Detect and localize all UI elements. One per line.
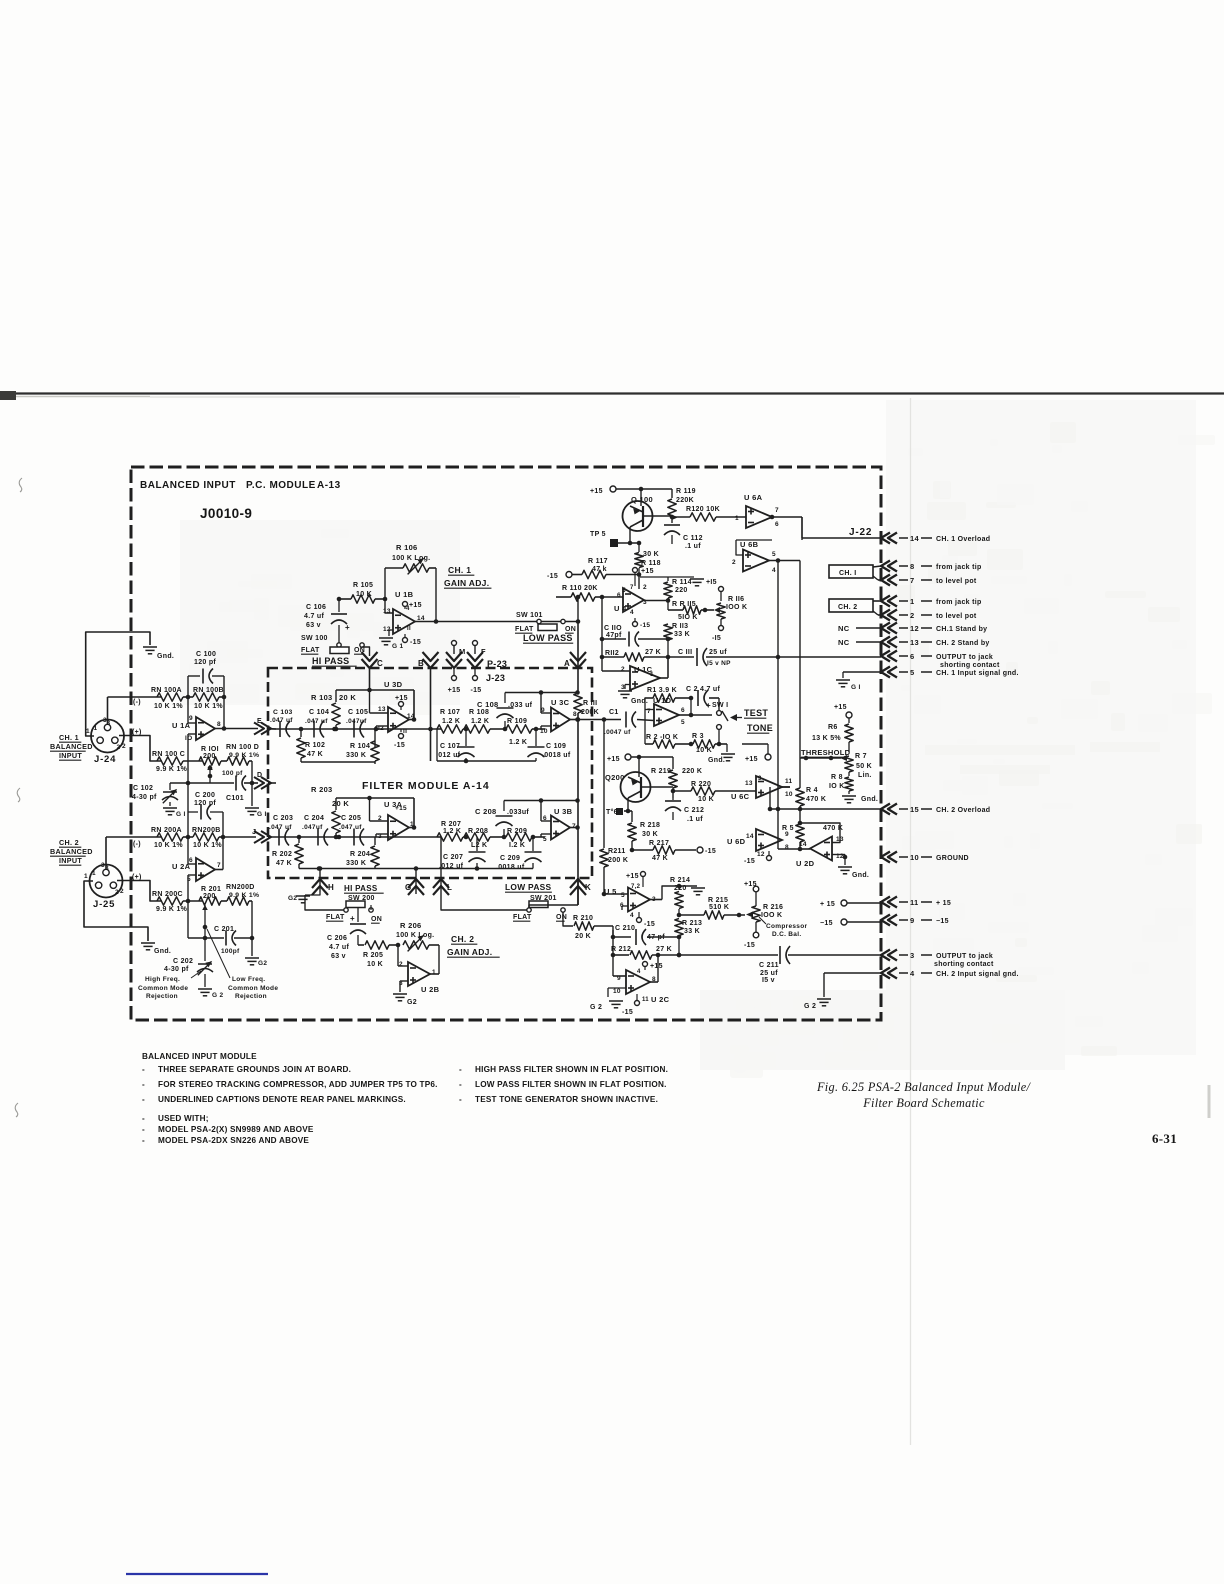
svg-text:HI PASS: HI PASS (344, 884, 378, 893)
svg-text:5: 5 (681, 719, 685, 726)
svg-text:.012 uf: .012 uf (436, 752, 461, 759)
svg-text:NC: NC (838, 624, 850, 633)
svg-text:BALANCED INPUT: BALANCED INPUT (140, 480, 236, 491)
svg-text:CH. I: CH. I (839, 570, 856, 577)
svg-text:100 K Log.: 100 K Log. (396, 932, 434, 939)
svg-text:+15: +15 (834, 704, 847, 711)
svg-text:U 6A: U 6A (744, 493, 763, 502)
svg-text:30 K: 30 K (642, 831, 658, 838)
svg-text:2: 2 (643, 584, 647, 591)
svg-text:+: + (706, 701, 711, 710)
svg-text:MODEL PSA-2(X) SN9989 AND ABOV: MODEL PSA-2(X) SN9989 AND ABOVE (158, 1125, 314, 1134)
svg-text:12: 12 (910, 624, 919, 633)
svg-text:CH. 2 Input signal gnd.: CH. 2 Input signal gnd. (936, 971, 1019, 978)
svg-text:5: 5 (621, 892, 625, 899)
svg-text:6-31: 6-31 (1152, 1131, 1177, 1146)
svg-text:5: 5 (622, 587, 626, 594)
svg-text:100 K Log.: 100 K Log. (392, 555, 430, 562)
svg-text:25 uf: 25 uf (760, 970, 778, 977)
svg-text:THREE SEPARATE GROUNDS JOIN AT: THREE SEPARATE GROUNDS JOIN AT BOARD. (158, 1065, 351, 1074)
svg-text:11: 11 (910, 898, 919, 907)
svg-text:CH. 2: CH. 2 (59, 838, 79, 847)
svg-text:2: 2 (732, 559, 736, 566)
svg-text:OUTPUT to jack: OUTPUT to jack (936, 953, 993, 960)
svg-text:J-23: J-23 (486, 673, 505, 683)
svg-text:HIGH PASS FILTER SHOWN IN FLAT: HIGH PASS FILTER SHOWN IN FLAT POSITION. (475, 1065, 668, 1074)
svg-text:-15: -15 (744, 942, 755, 949)
svg-text:Rejection: Rejection (235, 993, 267, 1000)
svg-text:C IIO: C IIO (604, 625, 622, 632)
svg-text:.047 uf: .047 uf (305, 718, 328, 725)
svg-text:8: 8 (785, 844, 789, 851)
svg-text:C 107: C 107 (440, 743, 460, 750)
svg-text:5: 5 (910, 668, 914, 677)
svg-text:G2: G2 (258, 960, 267, 967)
svg-text:5: 5 (772, 551, 776, 558)
svg-text:9.9 K 1%: 9.9 K 1% (156, 766, 188, 773)
svg-text:.033uf: .033uf (507, 809, 529, 816)
svg-text:-: - (142, 1136, 145, 1145)
svg-text:6: 6 (617, 592, 621, 599)
svg-text:R 109: R 109 (507, 718, 527, 725)
svg-text:2: 2 (621, 666, 625, 673)
svg-text:100 pf: 100 pf (222, 770, 243, 777)
svg-text:1: 1 (910, 597, 914, 606)
svg-text:.047uf: .047uf (346, 718, 367, 725)
svg-text:Gnd.: Gnd. (157, 653, 174, 660)
svg-text:F: F (481, 647, 486, 656)
svg-text:200 K: 200 K (608, 857, 628, 864)
svg-text:15: 15 (910, 805, 919, 814)
svg-text:+ 15: + 15 (936, 900, 951, 907)
svg-text:ON: ON (371, 916, 382, 923)
svg-text:C 202: C 202 (173, 958, 193, 965)
svg-text:R 117: R 117 (588, 558, 608, 565)
svg-text:INPUT: INPUT (59, 856, 82, 865)
svg-text:.0018 uf: .0018 uf (496, 864, 525, 871)
svg-text:P-23: P-23 (487, 659, 507, 669)
svg-text:C 209: C 209 (500, 855, 520, 862)
svg-text:-: - (459, 1080, 462, 1089)
svg-text:IO K: IO K (829, 783, 845, 790)
svg-text:C 108: C 108 (477, 700, 499, 709)
svg-text:BALANCED: BALANCED (50, 847, 93, 856)
svg-text:C III: C III (678, 649, 692, 656)
svg-text:C 102: C 102 (133, 785, 153, 792)
svg-text:6: 6 (910, 652, 914, 661)
svg-text:Gnd.: Gnd. (852, 872, 869, 879)
svg-text:LOW PASS: LOW PASS (523, 633, 573, 643)
svg-text:R 4: R 4 (806, 787, 818, 794)
svg-text:C 212: C 212 (684, 807, 704, 814)
svg-text:Compressor: Compressor (766, 923, 807, 930)
svg-text:FLAT: FLAT (515, 626, 534, 633)
svg-text:-: - (459, 1095, 462, 1104)
svg-text:(-): (-) (133, 841, 141, 848)
svg-text:R 206: R 206 (400, 921, 422, 930)
svg-text:9.9 K 1%: 9.9 K 1% (229, 752, 259, 759)
svg-text:11: 11 (785, 778, 793, 785)
svg-text:-15: -15 (644, 921, 655, 928)
svg-text:RN 100A: RN 100A (151, 687, 182, 694)
svg-text:11: 11 (642, 997, 649, 1003)
svg-text:1.2 K: 1.2 K (509, 739, 527, 746)
svg-text:4-30 pf: 4-30 pf (164, 966, 189, 973)
svg-text:R IOI: R IOI (201, 746, 219, 753)
svg-text:G I: G I (257, 811, 267, 818)
svg-text:LOW PASS FILTER SHOWN IN FLAT: LOW PASS FILTER SHOWN IN FLAT POSITION. (475, 1080, 667, 1089)
svg-text:13 K 5%: 13 K 5% (812, 735, 841, 742)
svg-text:RN 100 D: RN 100 D (226, 744, 259, 751)
svg-text:C 2 4.7 uf: C 2 4.7 uf (686, 686, 720, 693)
svg-text:20 K: 20 K (332, 799, 349, 808)
svg-text:2: 2 (115, 889, 119, 896)
svg-text:C 100: C 100 (196, 651, 216, 658)
svg-text:R II3: R II3 (672, 623, 688, 630)
svg-text:9: 9 (541, 707, 545, 714)
svg-text:RN 100 C: RN 100 C (152, 751, 185, 758)
svg-text:J-25: J-25 (93, 899, 115, 910)
svg-text:TP 5: TP 5 (590, 531, 606, 538)
svg-text:Rejection: Rejection (146, 993, 178, 1000)
svg-text:Gnd.: Gnd. (154, 948, 171, 955)
svg-text:7: 7 (775, 507, 779, 514)
svg-text:27 K: 27 K (645, 649, 661, 656)
svg-text:from jack tip: from jack tip (936, 564, 982, 571)
svg-text:R 215: R 215 (708, 897, 728, 904)
svg-text:G2: G2 (407, 999, 417, 1006)
svg-text:C 210: C 210 (615, 925, 635, 932)
svg-text:C 112: C 112 (683, 535, 703, 542)
svg-text:13: 13 (910, 638, 919, 647)
svg-text:1: 1 (432, 969, 436, 976)
svg-text:33 K: 33 K (674, 631, 690, 638)
svg-text:+15: +15 (409, 602, 422, 609)
svg-text:14: 14 (910, 534, 919, 543)
svg-text:R120 10K: R120 10K (686, 506, 720, 513)
svg-text:LOW PASS: LOW PASS (505, 882, 552, 892)
svg-text:7: 7 (910, 576, 914, 585)
svg-text:U 3C: U 3C (551, 698, 570, 707)
svg-text:+: + (345, 623, 350, 632)
svg-text:G 2: G 2 (212, 992, 223, 999)
svg-text:Gnd.: Gnd. (708, 757, 725, 764)
svg-text:(-): (-) (133, 699, 141, 706)
svg-text:4: 4 (406, 606, 410, 612)
svg-text:7,2: 7,2 (631, 884, 641, 890)
svg-text:9.9 K 1%: 9.9 K 1% (156, 906, 188, 913)
svg-text:GROUND: GROUND (936, 855, 969, 862)
svg-text:THRESHOLD: THRESHOLD (801, 748, 851, 757)
svg-text:-15: -15 (640, 622, 650, 629)
svg-text:ON: ON (556, 914, 567, 921)
svg-text:SW I: SW I (712, 702, 728, 709)
svg-text:CH. 1: CH. 1 (448, 565, 471, 575)
svg-text:CH. 1 Overload: CH. 1 Overload (936, 536, 990, 543)
svg-text:63 v: 63 v (306, 622, 321, 629)
svg-text:R 103: R 103 (311, 693, 333, 702)
svg-text:R 214: R 214 (670, 877, 690, 884)
svg-text:GAIN ADJ.: GAIN ADJ. (444, 578, 489, 588)
svg-text:R 213: R 213 (682, 920, 702, 927)
svg-text:II: II (407, 626, 411, 632)
svg-text:Common Mode: Common Mode (138, 985, 188, 992)
svg-text:4-30 pf: 4-30 pf (132, 794, 157, 801)
svg-text:R 114: R 114 (672, 579, 692, 586)
svg-text:8: 8 (573, 711, 577, 718)
svg-text:1.2 K: 1.2 K (471, 718, 489, 725)
svg-text:G I: G I (851, 684, 861, 691)
svg-text:.047 uf: .047 uf (339, 824, 362, 831)
svg-text:330 K: 330 K (346, 752, 366, 759)
svg-text:2: 2 (117, 744, 121, 751)
svg-text:RN 200A: RN 200A (151, 827, 182, 834)
svg-text:USED WITH;: USED WITH; (158, 1114, 209, 1123)
svg-text:M: M (459, 647, 466, 656)
svg-text:H: H (328, 883, 334, 892)
svg-text:3: 3 (758, 776, 762, 782)
svg-text:.047 uf: .047 uf (270, 717, 293, 724)
svg-text:R6: R6 (828, 724, 838, 731)
svg-text:OUTPUT to jack: OUTPUT to jack (936, 654, 993, 661)
svg-text:U 2C: U 2C (651, 995, 670, 1004)
svg-text:200K: 200K (581, 709, 599, 716)
svg-text:8: 8 (217, 721, 221, 728)
svg-text:R211: R211 (608, 848, 626, 855)
svg-text:R 217: R 217 (649, 840, 669, 847)
svg-text:C 204: C 204 (304, 815, 324, 822)
svg-text:13: 13 (383, 608, 391, 615)
svg-text:10: 10 (785, 791, 793, 798)
svg-text:1.2 K: 1.2 K (443, 828, 461, 835)
svg-text:330 K: 330 K (346, 860, 366, 867)
svg-text:-: - (459, 1065, 462, 1074)
svg-text:220K: 220K (676, 497, 694, 504)
svg-text:A-13: A-13 (317, 480, 341, 491)
svg-text:200: 200 (203, 893, 216, 900)
svg-text:220: 220 (675, 587, 688, 594)
svg-text:E: E (257, 718, 262, 725)
svg-text:C 105: C 105 (348, 709, 368, 716)
svg-text:−15: −15 (936, 918, 949, 925)
svg-text:-15: -15 (394, 742, 405, 749)
svg-text:shorting contact: shorting contact (934, 961, 994, 968)
svg-text:C 205: C 205 (341, 815, 361, 822)
svg-text:2: 2 (120, 888, 124, 895)
svg-text:High Freq.: High Freq. (145, 976, 180, 983)
svg-text:R 201: R 201 (201, 886, 221, 893)
svg-text:2: 2 (378, 815, 382, 822)
svg-text:BALANCED INPUT MODULE: BALANCED INPUT MODULE (142, 1052, 257, 1061)
svg-text:9: 9 (189, 715, 193, 722)
svg-text:G: G (405, 883, 412, 892)
svg-text:RN200B: RN200B (192, 827, 221, 834)
svg-text:13: 13 (378, 706, 386, 713)
svg-text:R 8: R 8 (831, 774, 843, 781)
svg-text:IOO K: IOO K (761, 912, 782, 919)
svg-text:.0047 uf: .0047 uf (604, 729, 631, 736)
svg-text:-15: -15 (744, 858, 755, 865)
svg-text:+15: +15 (641, 568, 654, 575)
svg-text:14: 14 (746, 833, 754, 840)
svg-text:J-24: J-24 (94, 754, 116, 765)
svg-text:R 104: R 104 (350, 743, 370, 750)
svg-text:to level pot: to level pot (936, 613, 977, 620)
svg-text:G I: G I (176, 811, 186, 818)
svg-text:200: 200 (203, 753, 216, 760)
svg-text:13: 13 (745, 780, 753, 787)
svg-text:25 uf: 25 uf (709, 649, 727, 656)
svg-text:C 203: C 203 (273, 815, 293, 822)
svg-text:D.C. Bal.: D.C. Bal. (772, 931, 801, 938)
svg-text:(+): (+) (132, 874, 142, 881)
svg-text:C101: C101 (226, 795, 244, 802)
svg-text:R 209: R 209 (507, 828, 527, 835)
svg-text:Common Mode: Common Mode (228, 985, 278, 992)
svg-text:CH. 2 Stand by: CH. 2 Stand by (936, 640, 990, 647)
svg-text:U 6B: U 6B (740, 540, 759, 549)
svg-text:10 K 1%: 10 K 1% (194, 703, 223, 710)
svg-text:2: 2 (122, 743, 126, 750)
svg-text:+15: +15 (395, 805, 407, 812)
svg-text:1: 1 (735, 515, 739, 522)
svg-text:100pf: 100pf (221, 948, 240, 955)
svg-text:1: 1 (650, 671, 654, 678)
svg-text:+: + (350, 914, 355, 923)
svg-text:CH. 2: CH. 2 (451, 934, 474, 944)
svg-text:+15: +15 (745, 756, 758, 763)
svg-text:FOR STEREO TRACKING COMPRESSOR: FOR STEREO TRACKING COMPRESSOR, ADD JUMP… (158, 1080, 438, 1089)
svg-text:RN 100B: RN 100B (193, 687, 224, 694)
svg-text:G 2: G 2 (804, 1003, 816, 1010)
svg-text:CH. 1: CH. 1 (59, 733, 79, 742)
svg-text:Fig. 6.25 PSA-2 Balanced In: Fig. 6.25 PSA-2 Balanced Input Module/ (816, 1080, 1032, 1094)
svg-text:C 211: C 211 (759, 962, 779, 969)
svg-text:.1 uf: .1 uf (685, 543, 701, 550)
svg-text:-: - (142, 1095, 145, 1104)
svg-text:6: 6 (543, 815, 547, 822)
svg-text:to level pot: to level pot (936, 578, 977, 585)
svg-text:10 K: 10 K (698, 796, 714, 803)
svg-text:C 206: C 206 (327, 935, 347, 942)
svg-text:ON: ON (354, 647, 365, 654)
svg-text:CH. 2 Overload: CH. 2 Overload (936, 807, 990, 814)
svg-text:47 K: 47 K (276, 860, 292, 867)
svg-text:R 106: R 106 (396, 543, 418, 552)
svg-text:TEST TONE GENERATOR SHOWN INAC: TEST TONE GENERATOR SHOWN INACTIVE. (475, 1095, 658, 1104)
svg-text:3: 3 (101, 862, 105, 869)
svg-text:4.7 uf: 4.7 uf (329, 944, 349, 951)
svg-text:K: K (585, 883, 591, 892)
svg-text:GAIN ADJ.: GAIN ADJ. (447, 947, 492, 957)
svg-text:-15: -15 (410, 639, 421, 646)
svg-text:+I5: +I5 (706, 579, 717, 586)
svg-text:SW 100: SW 100 (301, 635, 328, 642)
svg-text:FILTER MODULE A-14: FILTER MODULE A-14 (362, 780, 490, 792)
svg-text:.047 uf: .047 uf (269, 824, 292, 831)
svg-text:+15: +15 (744, 881, 757, 888)
svg-text:20 K: 20 K (575, 933, 591, 940)
svg-text:II: II (403, 728, 407, 735)
svg-text:(+): (+) (132, 729, 142, 736)
svg-text:FLAT: FLAT (326, 914, 345, 921)
svg-text:U 1D: U 1D (653, 696, 672, 705)
svg-text:10 K: 10 K (367, 961, 383, 968)
svg-text:-15: -15 (705, 848, 716, 855)
svg-text:-: - (142, 1080, 145, 1089)
svg-text:4: 4 (630, 912, 634, 919)
svg-text:1.2 K: 1.2 K (442, 718, 460, 725)
svg-text:P.C. MODULE: P.C. MODULE (246, 480, 316, 491)
svg-text:+15: +15 (650, 963, 663, 970)
svg-text:R 212: R 212 (611, 946, 631, 953)
svg-text:27 K: 27 K (656, 946, 672, 953)
svg-text:9.9 K 1%: 9.9 K 1% (229, 892, 259, 899)
svg-text:2: 2 (399, 961, 403, 968)
svg-text:IOO K: IOO K (726, 604, 747, 611)
svg-text:R 207: R 207 (441, 821, 461, 828)
svg-text:Low Freq.: Low Freq. (232, 976, 265, 983)
svg-text:C: C (377, 659, 383, 668)
svg-text:Filter Board Schematic: Filter Board Schematic (862, 1096, 985, 1110)
svg-text:UNDERLINED CAPTIONS DENOTE REA: UNDERLINED CAPTIONS DENOTE REAR PANEL MA… (158, 1095, 406, 1104)
svg-text:TONE: TONE (747, 723, 773, 733)
svg-text:CH. 1 Input signal gnd.: CH. 1 Input signal gnd. (936, 670, 1019, 677)
svg-text:U 4: U 4 (614, 604, 627, 613)
svg-text:.1 uf: .1 uf (687, 816, 703, 823)
svg-text:SW 101: SW 101 (516, 612, 543, 619)
svg-text:Gnd.: Gnd. (861, 796, 878, 803)
svg-text:7: 7 (217, 862, 221, 869)
svg-text:4: 4 (910, 969, 915, 978)
svg-text:R 216: R 216 (763, 904, 783, 911)
svg-text:47 K: 47 K (307, 751, 323, 758)
svg-text:RII2: RII2 (605, 650, 619, 657)
svg-text:R 108: R 108 (469, 709, 489, 716)
svg-text:R 7: R 7 (855, 753, 867, 760)
svg-text:4: 4 (637, 969, 641, 975)
svg-text:220: 220 (674, 885, 687, 892)
svg-text:A: A (564, 659, 570, 668)
svg-text:4: 4 (630, 609, 634, 616)
svg-text:10 K 1%: 10 K 1% (154, 842, 183, 849)
svg-text:-15: -15 (470, 687, 481, 694)
svg-text:R 107: R 107 (440, 709, 460, 716)
svg-text:120 pf: 120 pf (194, 800, 216, 807)
svg-text:4.7 uf: 4.7 uf (304, 613, 324, 620)
svg-text:9: 9 (910, 916, 914, 925)
svg-text:R 204: R 204 (350, 851, 370, 858)
svg-text:FLAT: FLAT (513, 914, 532, 921)
svg-text:U 3B: U 3B (554, 807, 573, 816)
svg-text:63 v: 63 v (331, 953, 346, 960)
svg-text:20 K: 20 K (339, 693, 356, 702)
svg-text:6: 6 (775, 521, 779, 528)
svg-text:from jack tip: from jack tip (936, 599, 982, 606)
svg-text:2: 2 (910, 611, 914, 620)
svg-text:-15: -15 (622, 1009, 633, 1016)
svg-text:30 K: 30 K (643, 551, 659, 558)
svg-text:10: 10 (910, 853, 919, 862)
svg-text:U 6C: U 6C (731, 792, 750, 801)
svg-text:L: L (447, 883, 452, 892)
svg-text:BALANCED: BALANCED (50, 742, 93, 751)
svg-text:C 106: C 106 (306, 604, 326, 611)
svg-text:R 105: R 105 (353, 582, 373, 589)
svg-text:1: 1 (86, 728, 90, 735)
svg-text:C 208: C 208 (475, 807, 497, 816)
svg-text:12: 12 (757, 851, 765, 858)
